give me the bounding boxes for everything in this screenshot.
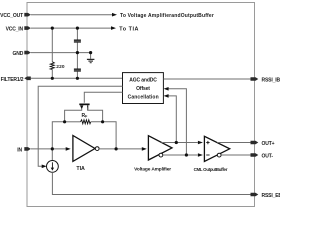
arrowhead into current source: [42, 165, 47, 169]
wire VCC_IN to capacitor C1: [76, 28, 78, 39]
arrowhead into CML +: [198, 141, 203, 145]
node VCC_IN / R1 junction: [51, 27, 54, 30]
svg-text:TIA: TIA: [76, 166, 85, 172]
wire feedback to input node: [52, 122, 64, 161]
inversion bubble on CML lower output: [217, 153, 221, 157]
node GND / ground junction: [89, 51, 92, 54]
arrowhead into Voltage Amplifier: [142, 147, 147, 151]
node TIA output junction: [115, 147, 118, 150]
pin VCC_IN: [24, 26, 31, 30]
chip boundary: [27, 3, 255, 207]
pin OUT-: [251, 153, 259, 157]
arrowhead To TIA: [111, 26, 116, 30]
svg-text:OUT-: OUT-: [262, 154, 274, 160]
wire feedback right segment to TIA output: [91, 122, 116, 149]
wire MOSFET drain to feedback node B: [88, 107, 103, 121]
wire VCC_OUT rail: [31, 14, 113, 16]
wire AGC sense from OUT- line: [168, 89, 186, 155]
wire GND rail to capacitor C2: [76, 53, 78, 69]
wire feedback left segment: [65, 121, 81, 123]
svg-text:Voltage Amplifier: Voltage Amplifier: [134, 166, 171, 172]
wire FILTER1/2 rail: [31, 77, 123, 79]
svg-text:RSSI_IB: RSSI_IB: [262, 78, 281, 84]
svg-text:RSSI_EB: RSSI_EB: [262, 193, 281, 199]
AGC block U2: [123, 73, 164, 104]
wire capacitor C1 to GND rail: [76, 43, 78, 53]
pin RSSI_EB: [251, 193, 259, 197]
wire VA upper output to CML buffer: [161, 142, 197, 144]
arrowhead To Voltage Amplifier: [112, 13, 117, 17]
wire AGC control to current source: [38, 86, 122, 166]
inversion bubble on VA lower output: [159, 153, 163, 157]
node FILTER / R1 junction: [51, 77, 54, 80]
svg-text:CML OutputBuffer: CML OutputBuffer: [194, 167, 228, 172]
svg-text:To TIA: To TIA: [119, 27, 139, 33]
node GND / C junction: [76, 51, 79, 54]
wire IN from pin: [31, 148, 66, 150]
node feedback right junction: [101, 120, 104, 123]
wire AGC sense from OUT+ line: [168, 96, 176, 143]
wire CML to OUT-: [221, 154, 250, 156]
op-amp CML Output Buffer U4: [204, 136, 229, 161]
wire GND rail: [31, 52, 91, 54]
arrowhead into AGC lower: [164, 94, 169, 98]
node FILTER / C2 junction: [76, 77, 79, 80]
svg-text:FILTER1/2: FILTER1/2: [1, 77, 24, 83]
svg-text:RF: RF: [82, 113, 89, 119]
wire resistor R1 to FILTER rail: [51, 69, 53, 78]
wire MOSFET source to feedback node A: [65, 109, 82, 122]
pin VCC_OUT: [24, 13, 31, 17]
capacitor C2: [74, 69, 81, 70]
ground: [87, 59, 95, 60]
pin IN: [24, 147, 31, 151]
op-amp TIA U1: [73, 136, 95, 162]
wire CML to OUT+: [217, 142, 250, 144]
wire VCC_IN to resistor R1: [51, 28, 53, 62]
wire current source to RSSI_EB: [52, 172, 250, 194]
pin GND: [24, 51, 31, 55]
wire capacitor C2 to FILTER rail: [76, 72, 78, 79]
svg-text:OUT+: OUT+: [262, 141, 275, 147]
svg-text:220: 220: [56, 64, 65, 70]
svg-text:VCC_OUT: VCC_OUT: [0, 13, 23, 19]
svg-text:Cancellation: Cancellation: [128, 95, 159, 101]
wire GND rail stub to ground: [90, 53, 92, 59]
svg-text:VCC_IN: VCC_IN: [6, 27, 24, 33]
resistor R1: [50, 62, 54, 70]
pin label -: [206, 154, 209, 156]
node VCC_IN / C1 junction: [76, 27, 79, 30]
wire AGC to RSSI_IB: [163, 78, 250, 80]
svg-text:IN: IN: [17, 147, 22, 153]
pin label +: [206, 141, 209, 144]
arrowhead into CML -: [198, 153, 203, 157]
pin FILTER1/2: [24, 77, 31, 81]
wire TIA output to Voltage Amplifier: [99, 148, 142, 150]
arrowhead into AGC upper: [164, 87, 169, 91]
op-amp Voltage Amplifier U3: [148, 136, 172, 160]
capacitor C1: [74, 40, 81, 41]
node IN junction: [51, 147, 54, 150]
wire AGC to MOSFET gate: [84, 92, 122, 102]
svg-text:Offset: Offset: [136, 86, 150, 92]
node OUT+ sense junction: [175, 141, 178, 144]
svg-text:AGC andDC: AGC andDC: [129, 78, 157, 84]
svg-text:To Voltage AmplifierandOutputB: To Voltage AmplifierandOutputBuffer: [120, 13, 214, 19]
pin RSSI_IB: [251, 77, 259, 81]
wire VCC_IN rail: [31, 27, 112, 29]
arrowhead into TIA: [66, 147, 71, 151]
node feedback left junction: [63, 120, 66, 123]
wire VA lower output to CML buffer: [163, 154, 198, 156]
pin OUT+: [251, 141, 259, 145]
current source I1: [47, 161, 59, 173]
resistor Rf: [81, 120, 91, 124]
node OUT- sense junction: [185, 153, 188, 156]
svg-text:GND: GND: [13, 51, 24, 57]
transistor Q1 AGC shunt MOSFET: [79, 104, 89, 106]
